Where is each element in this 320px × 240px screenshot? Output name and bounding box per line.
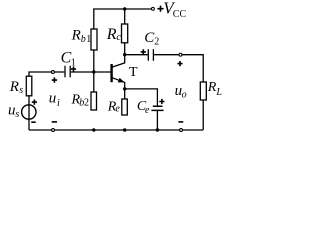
resistor RL xyxy=(200,82,206,100)
terminal input top xyxy=(51,71,54,74)
terminal output bottom xyxy=(180,129,183,132)
resistor Re xyxy=(122,99,128,115)
svg-text:CC: CC xyxy=(173,9,187,20)
node Re bottom xyxy=(123,128,126,131)
svg-text:2: 2 xyxy=(84,98,89,109)
wire Rb2 leads xyxy=(93,72,95,92)
resistor Rc xyxy=(122,24,128,43)
svg-text:1: 1 xyxy=(86,34,91,45)
svg-text:e: e xyxy=(115,104,120,115)
node emitter junction xyxy=(123,87,126,90)
node Rb2 bottom xyxy=(92,128,95,131)
node collector junction xyxy=(123,53,126,56)
svg-text:u: u xyxy=(8,102,16,118)
wire C2 to RL xyxy=(154,55,203,82)
svg-text:u: u xyxy=(49,90,57,106)
resistor Rb2 xyxy=(91,92,97,110)
svg-text:1: 1 xyxy=(71,57,76,68)
wire left branch us to C1 xyxy=(29,72,64,130)
resistor Rb1 xyxy=(91,29,97,50)
transistor emitter lead xyxy=(112,78,124,89)
minus ui xyxy=(52,121,57,123)
node Ce bottom xyxy=(156,128,159,131)
plus us xyxy=(32,100,37,105)
svg-text:R: R xyxy=(9,79,19,95)
wire Rb1 bottom lead xyxy=(93,50,95,72)
transistor collector lead xyxy=(112,43,124,67)
svg-text:R: R xyxy=(106,26,117,43)
node base junction xyxy=(92,70,95,73)
svg-text:T: T xyxy=(129,65,138,80)
svg-text:c: c xyxy=(116,32,121,43)
minus uo xyxy=(178,121,183,123)
plus Vcc xyxy=(157,6,163,12)
plus C2 xyxy=(141,49,146,54)
wire Re leads xyxy=(124,89,126,99)
plus Ce xyxy=(159,99,164,104)
plus uo xyxy=(177,61,182,66)
terminal +Vcc xyxy=(151,7,154,10)
wire RL bottom lead xyxy=(202,100,204,130)
plus ui xyxy=(52,77,57,82)
wire collector to C2 xyxy=(125,54,148,56)
capacitor C2 xyxy=(148,49,153,61)
transistor emitter arrowhead xyxy=(118,78,125,83)
svg-text:o: o xyxy=(182,89,187,100)
resistor Rs xyxy=(26,76,32,96)
svg-text:e: e xyxy=(145,105,150,116)
svg-text:2: 2 xyxy=(154,37,159,48)
svg-text:s: s xyxy=(15,109,19,120)
wire bottom rail xyxy=(29,129,203,131)
capacitor Ce xyxy=(151,106,163,110)
node top rail Rc junction xyxy=(123,7,126,10)
source us circle xyxy=(22,105,36,119)
capacitor C1 xyxy=(65,66,70,78)
svg-text:s: s xyxy=(19,85,23,96)
svg-text:L: L xyxy=(215,87,222,98)
plus C1 xyxy=(71,67,76,72)
svg-text:b: b xyxy=(81,34,86,45)
svg-text:R: R xyxy=(71,27,81,43)
svg-text:R: R xyxy=(207,80,217,95)
wire Ce bottom lead xyxy=(156,110,158,130)
wire emitter to Ce xyxy=(125,89,158,106)
minus us xyxy=(31,121,35,123)
transistor T base bar xyxy=(110,64,112,82)
wire C1 to base xyxy=(71,71,111,73)
svg-text:i: i xyxy=(57,98,60,109)
terminal output top xyxy=(179,53,182,56)
terminal input bottom xyxy=(52,129,55,132)
wire Rc top lead xyxy=(124,9,126,24)
wire top rail xyxy=(94,9,151,29)
